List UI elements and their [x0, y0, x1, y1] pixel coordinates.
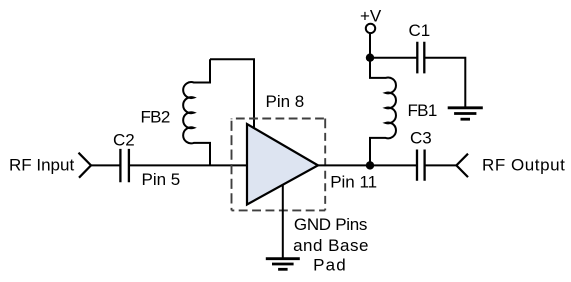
- wire C2 to amplifier input: [129, 164, 247, 166]
- capacitor C1: [417, 42, 424, 74]
- svg-text:C2: C2: [113, 131, 135, 150]
- wire C1 to right ground: [424, 58, 465, 108]
- label GND Pins and Base Pad: [293, 215, 369, 275]
- svg-text:RF Output: RF Output: [482, 155, 565, 174]
- capacitor C2: [120, 149, 128, 182]
- wire C3 to output port: [425, 164, 457, 166]
- dashed package outline: [232, 119, 326, 211]
- wire amplifier to ground: [282, 184, 284, 258]
- ferrite bead FB2: [183, 59, 210, 165]
- ground (right, C1): [448, 108, 483, 119]
- svg-text:FB2: FB2: [141, 108, 170, 127]
- svg-text:RF Input: RF Input: [9, 156, 74, 175]
- RF Output port arrow: [456, 154, 468, 177]
- wire input to C2: [91, 164, 120, 166]
- svg-text:and Base: and Base: [293, 236, 369, 255]
- svg-text:Pin 5: Pin 5: [142, 170, 181, 189]
- RF Input port arrow: [79, 153, 92, 178]
- svg-text:C3: C3: [410, 128, 432, 147]
- wire amplifier output to C3: [318, 164, 417, 166]
- wire supply node to C1: [370, 57, 417, 59]
- svg-text:FB1: FB1: [408, 101, 437, 120]
- ferrite bead FB1: [370, 58, 396, 166]
- amplifier U1 triangle: [247, 124, 318, 205]
- svg-text:+V: +V: [360, 6, 382, 25]
- svg-text:Pin 11: Pin 11: [330, 173, 377, 192]
- capacitor C3: [417, 150, 425, 181]
- +V terminal circle: [366, 24, 375, 33]
- junction node supply: [366, 54, 374, 62]
- wire supply node to +V terminal: [369, 33, 371, 58]
- svg-text:GND Pins: GND Pins: [294, 215, 367, 234]
- wire FB2 top to Pin 8: [210, 59, 254, 128]
- svg-text:Pad: Pad: [313, 255, 347, 274]
- junction node output: [366, 161, 374, 169]
- ground (center, GND pins): [266, 259, 300, 270]
- svg-text:Pin 8: Pin 8: [266, 92, 305, 111]
- svg-text:C1: C1: [409, 21, 431, 40]
